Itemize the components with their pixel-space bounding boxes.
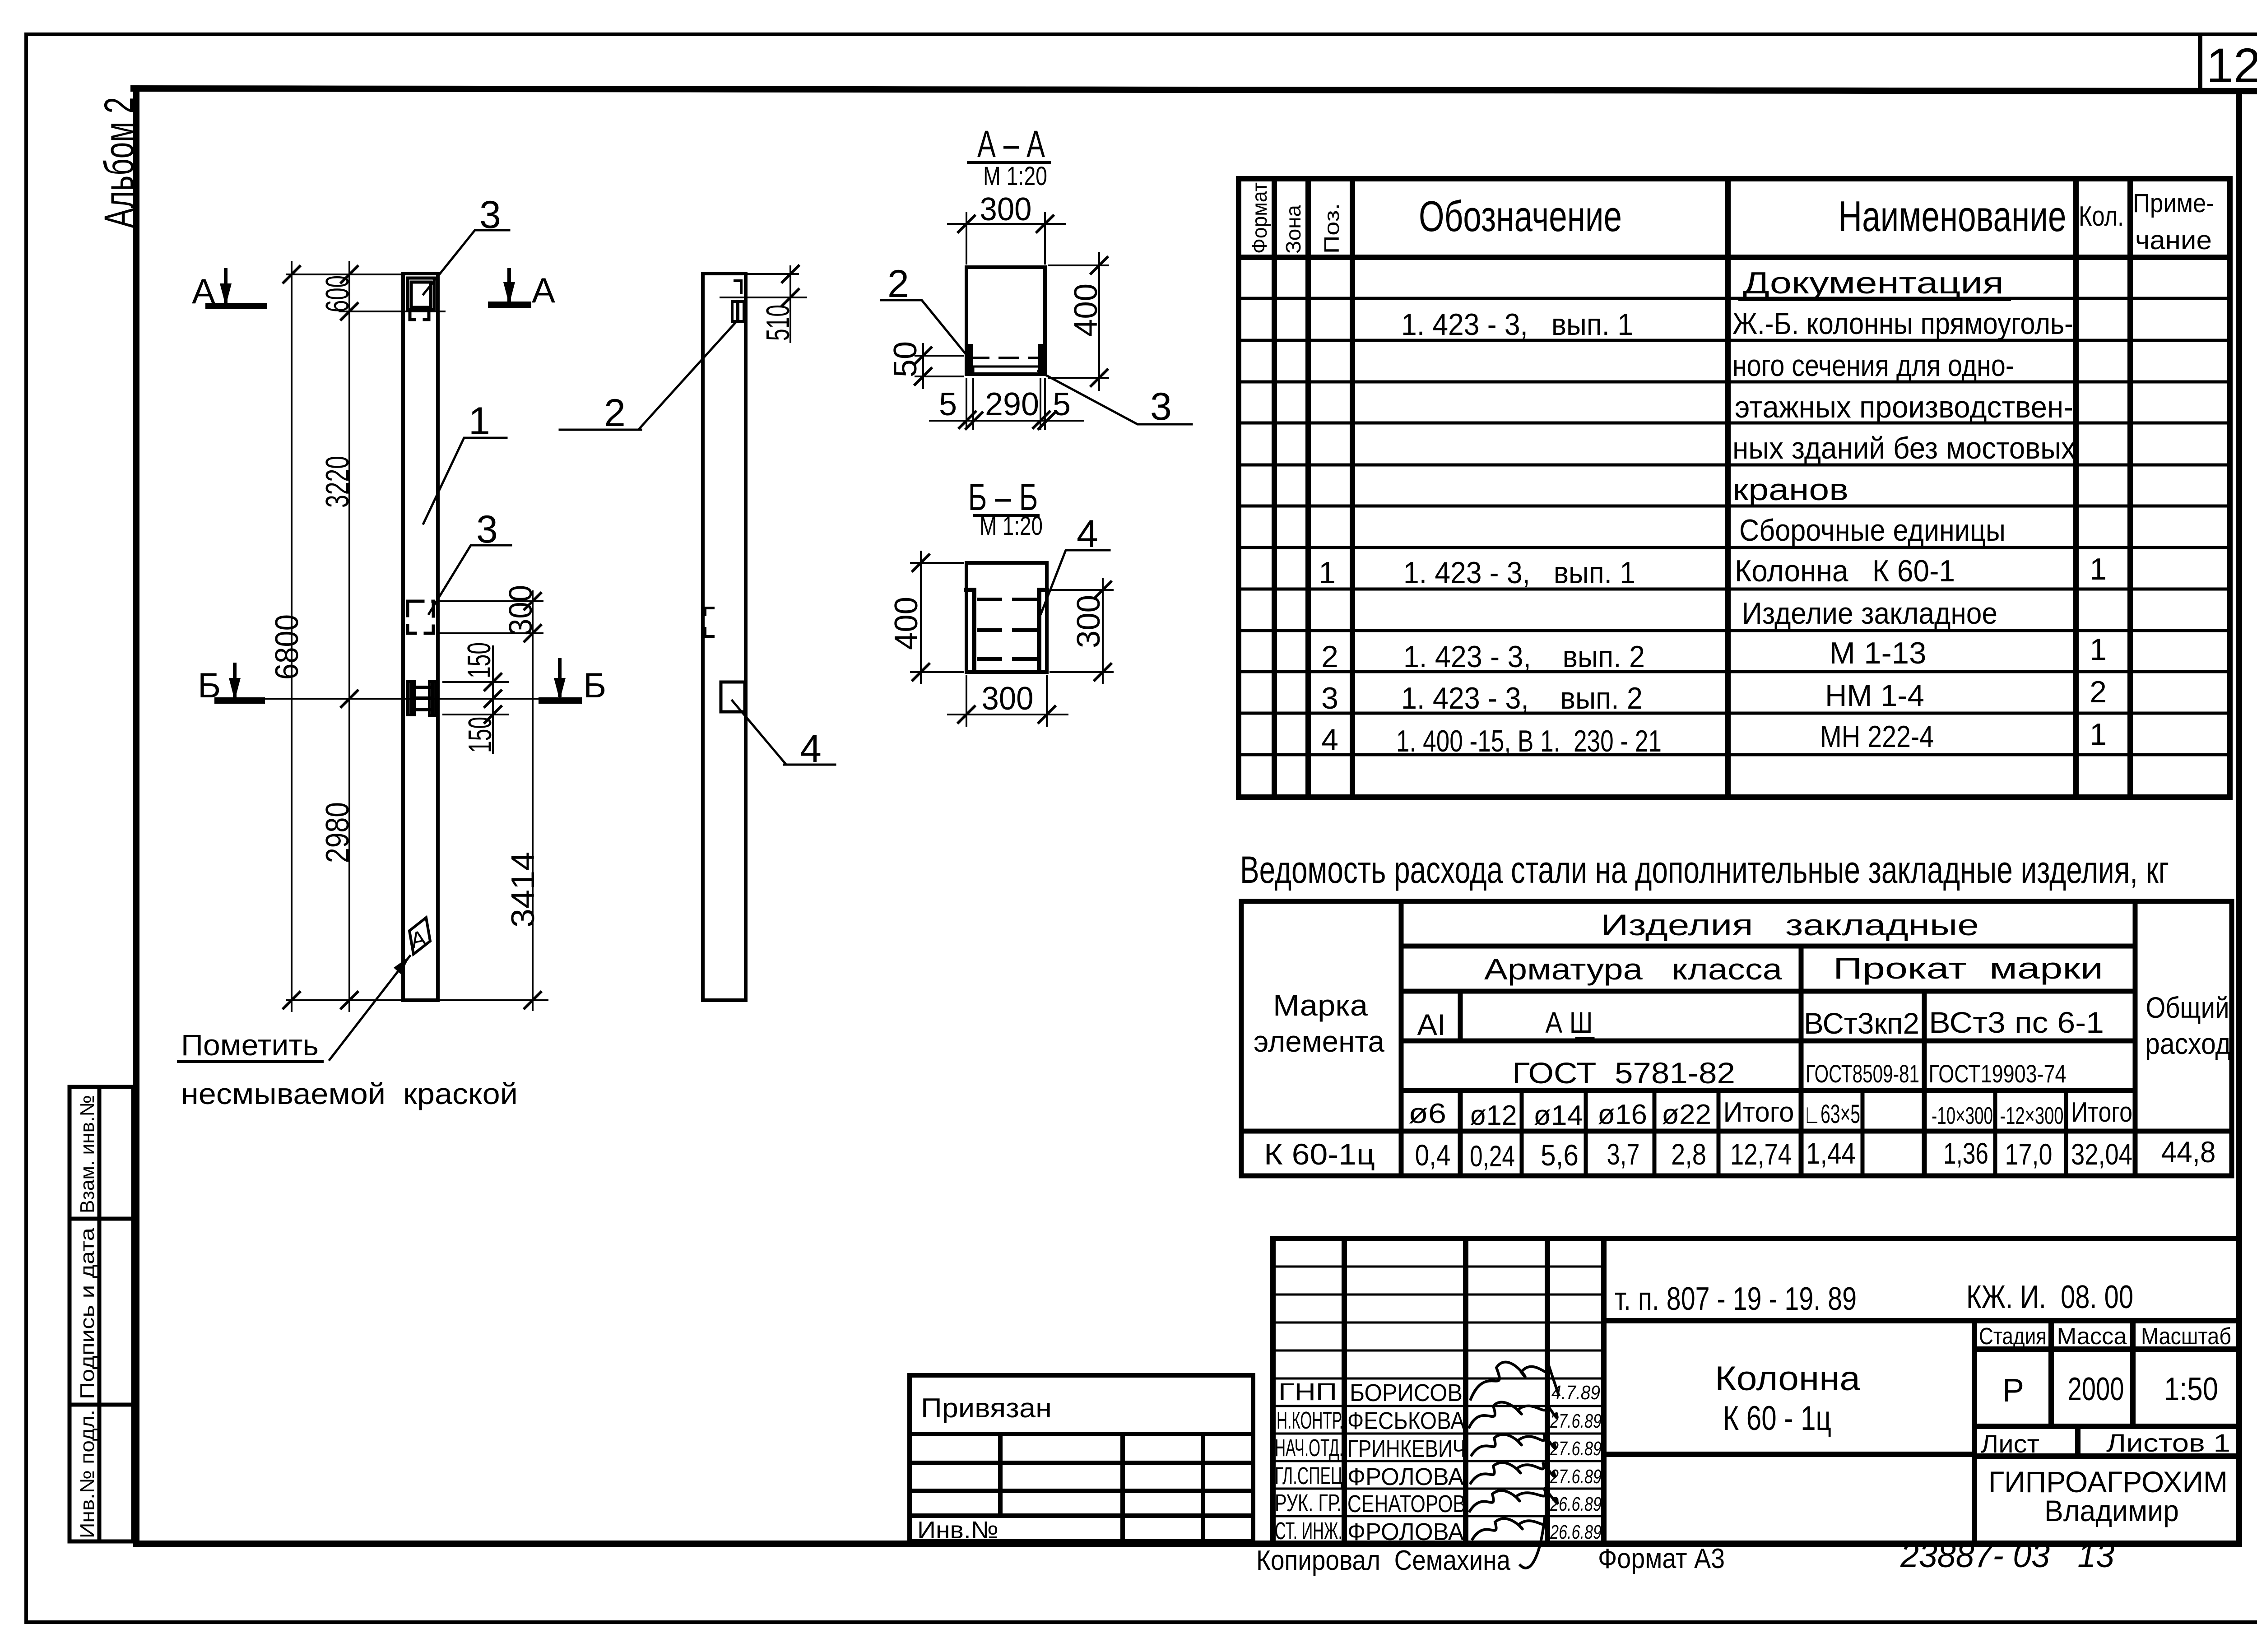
dimension 300 right of section B-B — [1050, 589, 1113, 591]
dimension line 150/150 — [492, 646, 494, 753]
svg-text:ГОСТ 5781-82: ГОСТ 5781-82 — [1512, 1056, 1735, 1090]
svg-text:М 1:20: М 1:20 — [983, 162, 1047, 191]
dimensions 5 / 290 / 5 bottom of section A-A — [930, 379, 1083, 429]
svg-text:2980: 2980 — [320, 802, 356, 863]
svg-text:Изделия закладные: Изделия закладные — [1601, 908, 1979, 942]
svg-text:4: 4 — [800, 727, 822, 770]
svg-text:Пометить: Пометить — [181, 1028, 319, 1062]
svg-text:2: 2 — [604, 391, 626, 435]
section B-B outline — [966, 563, 1047, 672]
svg-text:150: 150 — [461, 642, 497, 678]
svg-text:Изделие закладное: Изделие закладное — [1742, 596, 1997, 631]
svg-text:Кол.: Кол. — [2079, 201, 2124, 232]
svg-text:Подпись и дата: Подпись и дата — [76, 1227, 98, 1399]
svg-text:элемента: элемента — [1254, 1025, 1384, 1058]
svg-text:ного сечения для одно-: ного сечения для одно- — [1732, 348, 2014, 383]
svg-text:1: 1 — [2090, 632, 2107, 667]
svg-text:т. п. 807 - 19 - 19. 89: т. п. 807 - 19 - 19. 89 — [1615, 1281, 1857, 1317]
svg-text:ø12: ø12 — [1470, 1100, 1517, 1131]
svg-text:300: 300 — [1071, 595, 1107, 648]
svg-text:44,8: 44,8 — [2161, 1135, 2216, 1169]
svg-text:300: 300 — [503, 585, 539, 636]
svg-text:∟63×5: ∟63×5 — [1803, 1100, 1860, 1129]
svg-text:несмываемой краской: несмываемой краской — [181, 1077, 518, 1110]
svg-text:0,24: 0,24 — [1470, 1139, 1515, 1173]
svg-text:А: А — [192, 271, 215, 311]
spec table grid — [1239, 179, 2230, 797]
section mark A-A left — [209, 270, 264, 306]
svg-text:ø22: ø22 — [1662, 1099, 1711, 1130]
svg-text:РУК. ГР.: РУК. ГР. — [1275, 1490, 1342, 1517]
embed channel (pos.4) inner walls — [966, 590, 1047, 671]
leader and label 2 (side view) — [639, 322, 736, 429]
svg-text:Итого: Итого — [2071, 1097, 2132, 1128]
svg-text:Поз.: Поз. — [1320, 203, 1343, 254]
svg-text:Альбом 2: Альбом 2 — [96, 97, 142, 228]
embed HM1-4 (pos.3) mid-height, hidden (dashed) — [408, 601, 433, 633]
signature dates — [1550, 1382, 1602, 1543]
svg-text:Копировал Семахина: Копировал Семахина — [1256, 1545, 1510, 1576]
svg-text:Зона: Зона — [1282, 205, 1305, 254]
svg-text:Р: Р — [2002, 1373, 2024, 1409]
svg-text:Масштаб: Масштаб — [2141, 1323, 2231, 1350]
title block outer grid — [1273, 1239, 2239, 1544]
svg-text:32,04: 32,04 — [2071, 1137, 2132, 1171]
section mark B-B left — [218, 664, 262, 701]
dimension 400 right of section A-A — [1049, 265, 1108, 266]
anchor hook at top — [735, 281, 741, 292]
signature table row lines — [1273, 1267, 1604, 1516]
svg-text:1. 423 - 3, вып. 1: 1. 423 - 3, вып. 1 — [1401, 307, 1633, 342]
table grid — [1241, 901, 2232, 1176]
svg-text:ø14: ø14 — [1533, 1100, 1583, 1131]
svg-text:290: 290 — [985, 386, 1039, 422]
svg-text:М 1-13: М 1-13 — [1830, 636, 1927, 670]
witness line at 600 level — [339, 311, 445, 312]
svg-text:300: 300 — [980, 191, 1032, 227]
svg-text:расход: расход — [2145, 1027, 2231, 1060]
svg-text:1. 423 - 3, вып. 1: 1. 423 - 3, вып. 1 — [1403, 556, 1635, 590]
svg-text:4: 4 — [1077, 512, 1098, 556]
embed MN222-4 (pos.4) lower part of side view — [721, 682, 745, 712]
svg-text:Привязан: Привязан — [921, 1393, 1052, 1423]
svg-text:КЖ. И. 08. 00: КЖ. И. 08. 00 — [1966, 1279, 2133, 1315]
signature rows text — [1275, 1378, 1466, 1545]
anchor hooks mid-height (side view) — [705, 608, 713, 636]
sheet number box 12 — [2200, 36, 2257, 91]
tick marks on dim line x=774 — [341, 266, 358, 1008]
svg-text:26.6.89: 26.6.89 — [1550, 1521, 1602, 1543]
svg-text:Б: Б — [198, 665, 221, 705]
svg-text:1,36: 1,36 — [1943, 1137, 1988, 1170]
svg-text:чание: чание — [2135, 226, 2212, 255]
embed HM1-4 (pos.3) at column top — [408, 278, 434, 320]
svg-text:2000: 2000 — [2068, 1371, 2124, 1407]
svg-text:Ведомость расхода стали на доп: Ведомость расхода стали на дополнительны… — [1240, 849, 2169, 891]
dimension line 6800 — [291, 262, 293, 1011]
centerline at B-B level — [253, 698, 544, 700]
svg-text:3,7: 3,7 — [1607, 1137, 1640, 1171]
svg-text:2: 2 — [887, 262, 909, 306]
svg-text:2: 2 — [2090, 675, 2107, 709]
svg-text:ФРОЛОВА: ФРОЛОВА — [1347, 1518, 1464, 1545]
svg-text:Инв.№ подл.: Инв.№ подл. — [76, 1410, 98, 1538]
svg-text:3: 3 — [476, 508, 498, 551]
svg-text:400: 400 — [1068, 283, 1104, 337]
svg-text:-12×300: -12×300 — [2000, 1102, 2064, 1129]
svg-text:27.6.89: 27.6.89 — [1550, 1438, 1602, 1460]
svg-text:17,0: 17,0 — [2005, 1137, 2053, 1171]
embed plate (pos.3) in section — [973, 367, 1040, 374]
dimension 300 bottom of section B-B — [966, 676, 967, 726]
svg-text:НАЧ.ОТД.: НАЧ.ОТД. — [1275, 1434, 1343, 1462]
svg-text:Итого: Итого — [1723, 1097, 1794, 1128]
svg-text:1. 423 - 3, вып. 2: 1. 423 - 3, вып. 2 — [1401, 681, 1643, 715]
svg-text:1:50: 1:50 — [2164, 1371, 2218, 1407]
svg-text:ГОСТ19903-74: ГОСТ19903-74 — [1929, 1059, 2067, 1088]
svg-text:12: 12 — [2206, 38, 2257, 93]
svg-text:ø16: ø16 — [1598, 1099, 1647, 1130]
svg-text:А: А — [532, 270, 555, 310]
dimension 300 top of section A-A — [966, 213, 967, 264]
svg-text:К 60-1ц: К 60-1ц — [1264, 1137, 1375, 1171]
svg-text:3: 3 — [479, 193, 501, 237]
svg-text:510: 510 — [760, 305, 796, 341]
section mark A-A right — [491, 270, 528, 305]
svg-text:Н.КОНТР.: Н.КОНТР. — [1277, 1407, 1343, 1434]
svg-text:Стадия: Стадия — [1979, 1323, 2047, 1350]
svg-text:1: 1 — [1319, 556, 1336, 590]
svg-text:23887- 03 13: 23887- 03 13 — [1900, 1536, 2114, 1575]
svg-text:3: 3 — [1321, 681, 1338, 715]
witness line bottom — [287, 999, 548, 1001]
svg-text:1: 1 — [2090, 552, 2107, 586]
leader and label 4 (section B-B) — [1041, 550, 1110, 614]
svg-text:3414: 3414 — [505, 852, 541, 928]
svg-text:Масса: Масса — [2057, 1323, 2127, 1350]
svg-text:-10×300: -10×300 — [1932, 1102, 1993, 1129]
svg-text:27.6.89: 27.6.89 — [1550, 1466, 1602, 1488]
svg-text:кранов: кранов — [1732, 473, 1848, 507]
svg-text:5,6: 5,6 — [1541, 1138, 1579, 1172]
svg-text:Сборочные единицы: Сборочные единицы — [1739, 513, 2006, 548]
anchor angles at bottom corners — [968, 347, 973, 370]
svg-text:Владимир: Владимир — [2044, 1494, 2179, 1527]
embed M1-13 (pos.2) on right edge of side view — [732, 302, 744, 321]
dimension line 600 / 3220 / 2980 — [348, 262, 350, 1011]
svg-text:3220: 3220 — [320, 456, 356, 508]
leader and label 4 (side view) — [732, 701, 785, 764]
embed M1-13 (pos.2) connection plates at B-B level — [408, 682, 437, 715]
svg-text:0,4: 0,4 — [1415, 1138, 1451, 1172]
section A-A outline 300x400 — [966, 267, 1045, 374]
svg-text:ФЕСЬКОВА: ФЕСЬКОВА — [1347, 1407, 1465, 1434]
left margin stamp boxes — [70, 1087, 133, 1541]
svg-text:ГЛ.СПЕЦ: ГЛ.СПЕЦ — [1275, 1462, 1342, 1490]
svg-text:М 1:20: М 1:20 — [980, 511, 1043, 541]
svg-text:400: 400 — [888, 597, 924, 650]
svg-text:А Ш: А Ш — [1546, 1006, 1593, 1039]
svg-text:ГНП: ГНП — [1278, 1378, 1337, 1406]
witness lines for 150/150 — [443, 681, 508, 683]
leader and label 1 (column) — [423, 438, 506, 524]
svg-text:ВСт3 пс 6-1: ВСт3 пс 6-1 — [1929, 1006, 2104, 1039]
svg-text:1,44: 1,44 — [1806, 1137, 1856, 1170]
svg-text:К 60 - 1ц: К 60 - 1ц — [1723, 1399, 1831, 1438]
svg-text:2: 2 — [1321, 640, 1338, 674]
leader from note to diamond — [330, 956, 410, 1060]
svg-text:Наименование: Наименование — [1839, 192, 2067, 241]
svg-text:ВСт3кп2: ВСт3кп2 — [1804, 1007, 1919, 1040]
leader and label 2 (section A-A) — [881, 300, 968, 357]
svg-text:Формат: Формат — [1248, 182, 1271, 254]
svg-text:Общий: Общий — [2146, 991, 2229, 1024]
spec table row lines — [1239, 298, 2230, 755]
svg-text:1: 1 — [469, 399, 490, 443]
svg-text:3: 3 — [1150, 385, 1172, 428]
svg-text:АI: АI — [1417, 1008, 1446, 1041]
witness line top — [287, 274, 407, 275]
witness lines for 510 — [748, 273, 798, 275]
witness lines for 300/3414 at dashed embed — [437, 600, 543, 602]
svg-text:4: 4 — [1321, 723, 1338, 757]
svg-text:2,8: 2,8 — [1671, 1137, 1706, 1171]
svg-text:СЕНАТОРОВ: СЕНАТОРОВ — [1347, 1490, 1466, 1517]
section mark B-B right — [542, 660, 579, 701]
svg-text:Колонна К 60-1: Колонна К 60-1 — [1735, 554, 1955, 588]
svg-text:50: 50 — [887, 341, 924, 377]
svg-text:Ж.-Б. колонны прямоуголь-: Ж.-Б. колонны прямоуголь- — [1732, 306, 2073, 341]
svg-text:Б: Б — [583, 665, 606, 705]
svg-text:5: 5 — [1053, 386, 1071, 422]
handwritten signatures (squiggles) — [1469, 1362, 1558, 1568]
svg-text:Обозначение: Обозначение — [1419, 192, 1622, 241]
svg-text:Инв.№: Инв.№ — [917, 1517, 998, 1544]
dimension line 510 — [789, 266, 791, 342]
column 1 outline (front view) — [403, 274, 438, 1000]
svg-text:ных зданий без мостовых: ных зданий без мостовых — [1732, 431, 2076, 465]
svg-text:ГРИНКЕВИЧ: ГРИНКЕВИЧ — [1347, 1435, 1466, 1462]
svg-text:5: 5 — [939, 386, 957, 422]
svg-text:ГОСТ8509-81: ГОСТ8509-81 — [1806, 1059, 1919, 1088]
svg-text:Приме-: Приме- — [2133, 189, 2214, 218]
hidden plate edge (dashed) — [970, 357, 1041, 359]
svg-text:1. 400 -15, В 1. 230 - 21: 1. 400 -15, В 1. 230 - 21 — [1396, 724, 1662, 758]
svg-text:300: 300 — [982, 681, 1034, 717]
dimension 50 left of section A-A — [915, 355, 963, 357]
svg-text:Арматура класса: Арматура класса — [1484, 952, 1782, 986]
svg-text:1: 1 — [2090, 717, 2107, 752]
svg-text:1. 423 - 3, вып. 2: 1. 423 - 3, вып. 2 — [1403, 640, 1645, 674]
svg-text:12,74: 12,74 — [1730, 1137, 1792, 1171]
svg-text:МН 222-4: МН 222-4 — [1820, 719, 1934, 754]
svg-text:Прокат марки: Прокат марки — [1833, 951, 2103, 985]
svg-text:Колонна: Колонна — [1715, 1360, 1861, 1398]
svg-text:А – А: А – А — [977, 123, 1045, 165]
svg-text:Лист: Лист — [1981, 1429, 2039, 1458]
svg-text:Документация: Документация — [1743, 266, 2004, 300]
leader and label 3 (top embed) — [423, 230, 509, 294]
dimension 400 left of section B-B — [911, 562, 963, 564]
svg-text:БОРИСОВ: БОРИСОВ — [1350, 1379, 1463, 1406]
column outline (side view) — [703, 274, 746, 1000]
svg-text:Марка: Марка — [1273, 988, 1368, 1022]
svg-text:НМ 1-4: НМ 1-4 — [1825, 678, 1924, 713]
hidden anchor bars (dashed) — [979, 599, 1036, 659]
svg-text:ø6: ø6 — [1408, 1098, 1446, 1129]
svg-text:Взам. инв.№: Взам. инв.№ — [76, 1095, 98, 1213]
svg-text:6800: 6800 — [269, 614, 305, 680]
svg-text:ГИПРОАГРОХИМ: ГИПРОАГРОХИМ — [1988, 1465, 2228, 1499]
svg-text:600: 600 — [320, 275, 356, 312]
svg-text:150: 150 — [462, 717, 498, 753]
svg-text:этажных производствен-: этажных производствен- — [1735, 390, 2073, 424]
svg-text:ФРОЛОВА: ФРОЛОВА — [1347, 1463, 1464, 1490]
leader and label 3 (mid embed) — [429, 545, 511, 614]
svg-text:СТ. ИНЖ.: СТ. ИНЖ. — [1275, 1517, 1342, 1545]
marking diamond with letter A at column bottom — [409, 918, 430, 954]
svg-text:Листов 1: Листов 1 — [2106, 1429, 2230, 1457]
dimension line 300 / 3414 right of column — [532, 591, 534, 1010]
svg-text:Формат А3: Формат А3 — [1598, 1543, 1725, 1574]
leader and label 3 (section A-A) — [1038, 371, 1192, 424]
